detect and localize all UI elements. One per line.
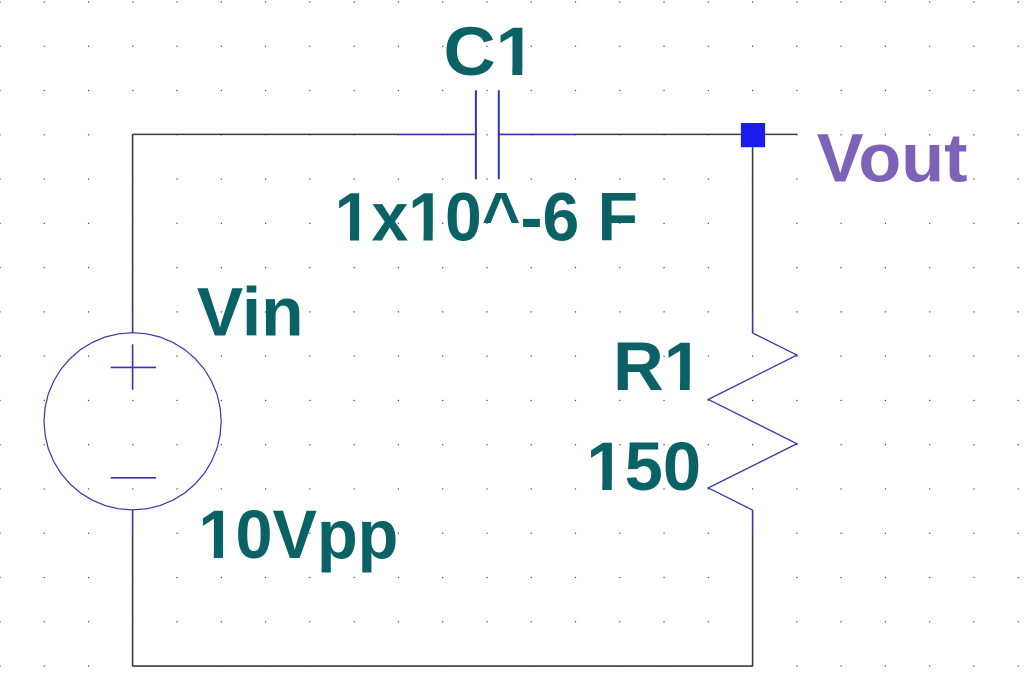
svg-text:R1: R1 (613, 328, 703, 405)
wire top-left horizontal (133, 133, 400, 135)
wire right vertical lower (752, 533, 754, 666)
resistor R1 bottom lead (752, 510, 754, 533)
voltage source Vin plus sign (111, 344, 156, 390)
wire top-right horizontal (576, 133, 741, 135)
svg-text:C1: C1 (444, 13, 536, 90)
node name Vout (817, 119, 968, 196)
value label 150 (586, 428, 701, 505)
voltage source Vin top lead (132, 312, 134, 333)
voltage source Vin body (44, 333, 221, 510)
resistor R1 top lead (752, 312, 754, 333)
svg-text:150: 150 (586, 428, 701, 505)
svg-text:Vout: Vout (817, 119, 968, 196)
label R1 (resistor designator) (613, 328, 703, 405)
value label 10Vpp (198, 497, 398, 573)
label Vin (source name) (197, 274, 304, 350)
svg-text:1x10^-6 F: 1x10^-6 F (335, 180, 638, 256)
capacitor C1 plates (476, 90, 499, 179)
wire right vertical upper (752, 147, 754, 312)
svg-text:Vin: Vin (197, 274, 304, 350)
resistor R1 zigzag (708, 333, 797, 510)
wire left vertical lower (132, 533, 134, 666)
capacitor C1 left lead (399, 133, 476, 135)
wire bottom horizontal (133, 665, 753, 667)
value label 1x10^-6 F (335, 180, 638, 256)
voltage source Vin minus sign (111, 477, 156, 479)
voltage source Vin bottom lead (132, 510, 134, 533)
svg-text:10Vpp: 10Vpp (198, 497, 398, 573)
node Vout square (741, 123, 765, 147)
wire stub right of node (765, 133, 797, 135)
label C1 (capacitor designator) (444, 13, 536, 90)
capacitor C1 right lead (499, 133, 576, 135)
wire left vertical upper (132, 134, 134, 312)
